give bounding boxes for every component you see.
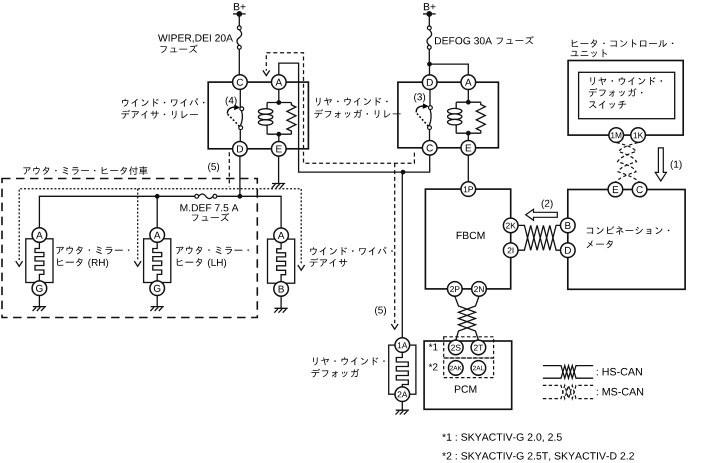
pin A (mirror LH) bbox=[150, 228, 165, 243]
relay coil and resistor (defog relay) bbox=[448, 100, 486, 136]
pin 2K (FBCM) bbox=[503, 218, 518, 233]
wire pin C to contact bbox=[239, 89, 241, 107]
wire fuse to relay pin C bbox=[238, 49, 240, 75]
label (3) bbox=[414, 93, 425, 102]
pin 2P (FBCM) bbox=[448, 282, 463, 297]
rear window defogger switch box bbox=[579, 72, 675, 118]
pin A (wiper deicer) bbox=[274, 228, 289, 243]
module FBCM box bbox=[425, 189, 510, 289]
flow arrow (1) open arrow down bbox=[655, 148, 666, 181]
pin D (meter) bbox=[561, 243, 576, 258]
pin G (mirror RH) bbox=[32, 281, 47, 296]
ground below wiper deicer bbox=[274, 296, 287, 313]
power B+ (wiper deicer circuit) bbox=[233, 3, 246, 17]
wire pin A to coil bbox=[278, 89, 280, 102]
label PCM bbox=[455, 385, 476, 392]
flow path (5) dashed branch to rear defogger bbox=[394, 163, 396, 323]
MS-CAN dashed twisted pair heater control to meter bbox=[615, 143, 639, 183]
relay U2 rear window defogger relay box bbox=[398, 82, 499, 148]
label WIPER,DEI 20A fuse bbox=[158, 34, 233, 53]
wire contact to pin D bbox=[239, 130, 241, 142]
pin 1A (rear defogger) bbox=[395, 338, 410, 353]
pin C (meter) bbox=[632, 182, 647, 197]
wire pin A to coil (defog relay) bbox=[467, 90, 469, 103]
note *1 SKYACTIV-G 2.0, 2.5 bbox=[442, 433, 562, 442]
relay coil and resistor (wiper relay) bbox=[258, 100, 296, 137]
wire riser mirror heater LH bbox=[156, 196, 158, 227]
heater element: window wiper deicer bbox=[268, 239, 295, 283]
dashed variant box *2 (2AK/2AL) bbox=[444, 358, 494, 378]
label *2 bbox=[429, 363, 438, 370]
junction at M.DEF line bbox=[238, 194, 243, 199]
relay U1 window wiper deicer relay box bbox=[208, 82, 308, 149]
wire junction down to rear defogger 1A bbox=[401, 172, 403, 338]
fuse WIPER,DEI 20A bbox=[237, 26, 242, 49]
label (1) bbox=[671, 160, 682, 169]
heater element: rear window defogger bbox=[389, 345, 416, 394]
pin 2AK (PCM) bbox=[449, 361, 464, 376]
label heater control unit bbox=[571, 39, 674, 57]
relay contact switch (3) bbox=[416, 103, 432, 129]
wire defog relay E to FBCM 1P bbox=[467, 155, 469, 182]
junction node to rear defogger bbox=[401, 170, 406, 175]
pin 2I (FBCM) bbox=[503, 243, 518, 258]
pin A (mirror RH) bbox=[32, 228, 47, 243]
wire pin D to contact (defog relay) bbox=[429, 90, 431, 106]
dashed variant box *1 (2S/2T) bbox=[444, 337, 494, 358]
label rear window defogger switch bbox=[589, 77, 662, 109]
label window wiper deicer bbox=[310, 247, 393, 267]
pin D (defog relay) bbox=[422, 75, 437, 90]
wire B+ to DEFOG fuse bbox=[428, 14, 430, 26]
heater element: outer mirror heater (LH) bbox=[144, 239, 171, 283]
flow arrow at wiper deicer bbox=[298, 265, 305, 270]
module heater control unit box bbox=[568, 61, 683, 136]
pin B (wiper deicer) bbox=[274, 282, 289, 297]
wire M.DEF feed line left bbox=[39, 196, 194, 227]
wire coil to pin E bbox=[278, 134, 280, 141]
pin 1M (heater control) bbox=[609, 128, 624, 143]
pin B (meter) bbox=[561, 218, 576, 233]
flow arrow at mirror heater RH bbox=[16, 261, 23, 266]
label (4) bbox=[226, 97, 237, 106]
label window wiper deicer relay bbox=[121, 98, 204, 118]
pin A (defog relay) bbox=[461, 75, 476, 90]
ground below mirror RH bbox=[33, 296, 46, 312]
ground below pin E (wiper relay) bbox=[272, 156, 285, 188]
module PCM box bbox=[424, 341, 512, 409]
module combination meter box bbox=[568, 190, 685, 290]
label rear window defogger bbox=[311, 357, 384, 377]
pin 1P (FBCM) bbox=[461, 182, 476, 197]
dashed enclosure: with outer mirror heater bbox=[2, 179, 257, 318]
flow path dotted to mirror heaters and deicer bbox=[19, 189, 301, 264]
pin 2AL (PCM) bbox=[471, 361, 486, 376]
pin 2N (FBCM) bbox=[472, 282, 487, 297]
ground below rear defogger bbox=[396, 402, 409, 415]
wire pin D to M.DEF fuse line bbox=[239, 156, 241, 196]
label FBCM bbox=[457, 232, 485, 239]
wire contact to pin C (defog relay) bbox=[429, 129, 431, 140]
label (2) bbox=[542, 200, 553, 209]
junction LH riser bbox=[155, 194, 160, 199]
pin C (wiper relay) bbox=[233, 75, 248, 90]
HS-CAN twisted pair FBCM to combination meter bbox=[518, 225, 561, 250]
label M.DEF 7.5 A fuse bbox=[180, 204, 238, 221]
pin 1K (heater control) bbox=[631, 128, 646, 143]
wire junction to pins D and A bbox=[430, 64, 469, 75]
label outer mirror heater (LH) bbox=[176, 246, 249, 268]
pin 2A (rear defogger) bbox=[395, 387, 410, 402]
pin G (mirror LH) bbox=[150, 281, 165, 296]
wire pin A to defog relay pin C bbox=[279, 63, 430, 172]
ground below mirror LH bbox=[150, 296, 163, 312]
label outer mirror heater (RH) bbox=[56, 246, 129, 268]
legend label HS-CAN bbox=[597, 368, 642, 376]
heater element: outer mirror heater (RH) bbox=[26, 239, 53, 283]
flow path dotted branch LH bbox=[137, 189, 139, 260]
pin E (defog relay) bbox=[461, 141, 476, 156]
flow arrow (2) open arrow left bbox=[526, 209, 558, 220]
flow path (5) stub at wiper relay pin D bbox=[228, 152, 230, 187]
pin E (meter) bbox=[608, 182, 623, 197]
legend HS-CAN twisted pair symbol bbox=[543, 366, 593, 379]
label combination meter bbox=[587, 226, 670, 248]
label DEFOG 30A fuse bbox=[435, 36, 534, 44]
label rear window defogger relay bbox=[314, 98, 400, 119]
junction above defog relay bbox=[427, 62, 432, 67]
fuse DEFOG 30A bbox=[427, 26, 432, 49]
legend label MS-CAN bbox=[597, 388, 643, 396]
flow arrow at mirror heater LH bbox=[134, 261, 141, 266]
pin E (wiper relay) bbox=[272, 142, 287, 157]
pin 2T (PCM) bbox=[471, 340, 486, 355]
label *1 bbox=[429, 344, 438, 351]
power B+ (defogger circuit) bbox=[423, 3, 436, 17]
pin 2S (PCM) bbox=[449, 340, 464, 355]
legend MS-CAN dashed twisted pair symbol bbox=[543, 385, 593, 398]
label with outer mirror heater bbox=[23, 166, 147, 175]
flow path (4) dashed from defog relay C to wiper relay bbox=[266, 53, 414, 164]
wire fuse to junction bbox=[428, 49, 430, 64]
wire M.DEF line right to deicer bbox=[217, 196, 281, 228]
note *2 SKYACTIV-G 2.5T, SKYACTIV-D 2.2 bbox=[442, 452, 634, 461]
label (5) near pin D bbox=[208, 163, 219, 172]
fuse M.DEF 7.5 A bbox=[195, 194, 217, 199]
flow arrow (5) bbox=[391, 324, 398, 329]
pin D (wiper relay) bbox=[233, 142, 248, 157]
flow arrow (4) bbox=[263, 70, 270, 75]
HS-CAN twisted pair FBCM to PCM bbox=[455, 296, 479, 340]
wire B+ to fuse bbox=[238, 14, 240, 26]
pin C (defog relay) bbox=[422, 141, 437, 156]
label (5) near rear defogger bbox=[375, 306, 386, 315]
wire coil to pin E (defog relay) bbox=[467, 133, 469, 140]
pin A (wiper relay) bbox=[272, 75, 287, 90]
relay contact switch (4) bbox=[227, 105, 243, 130]
